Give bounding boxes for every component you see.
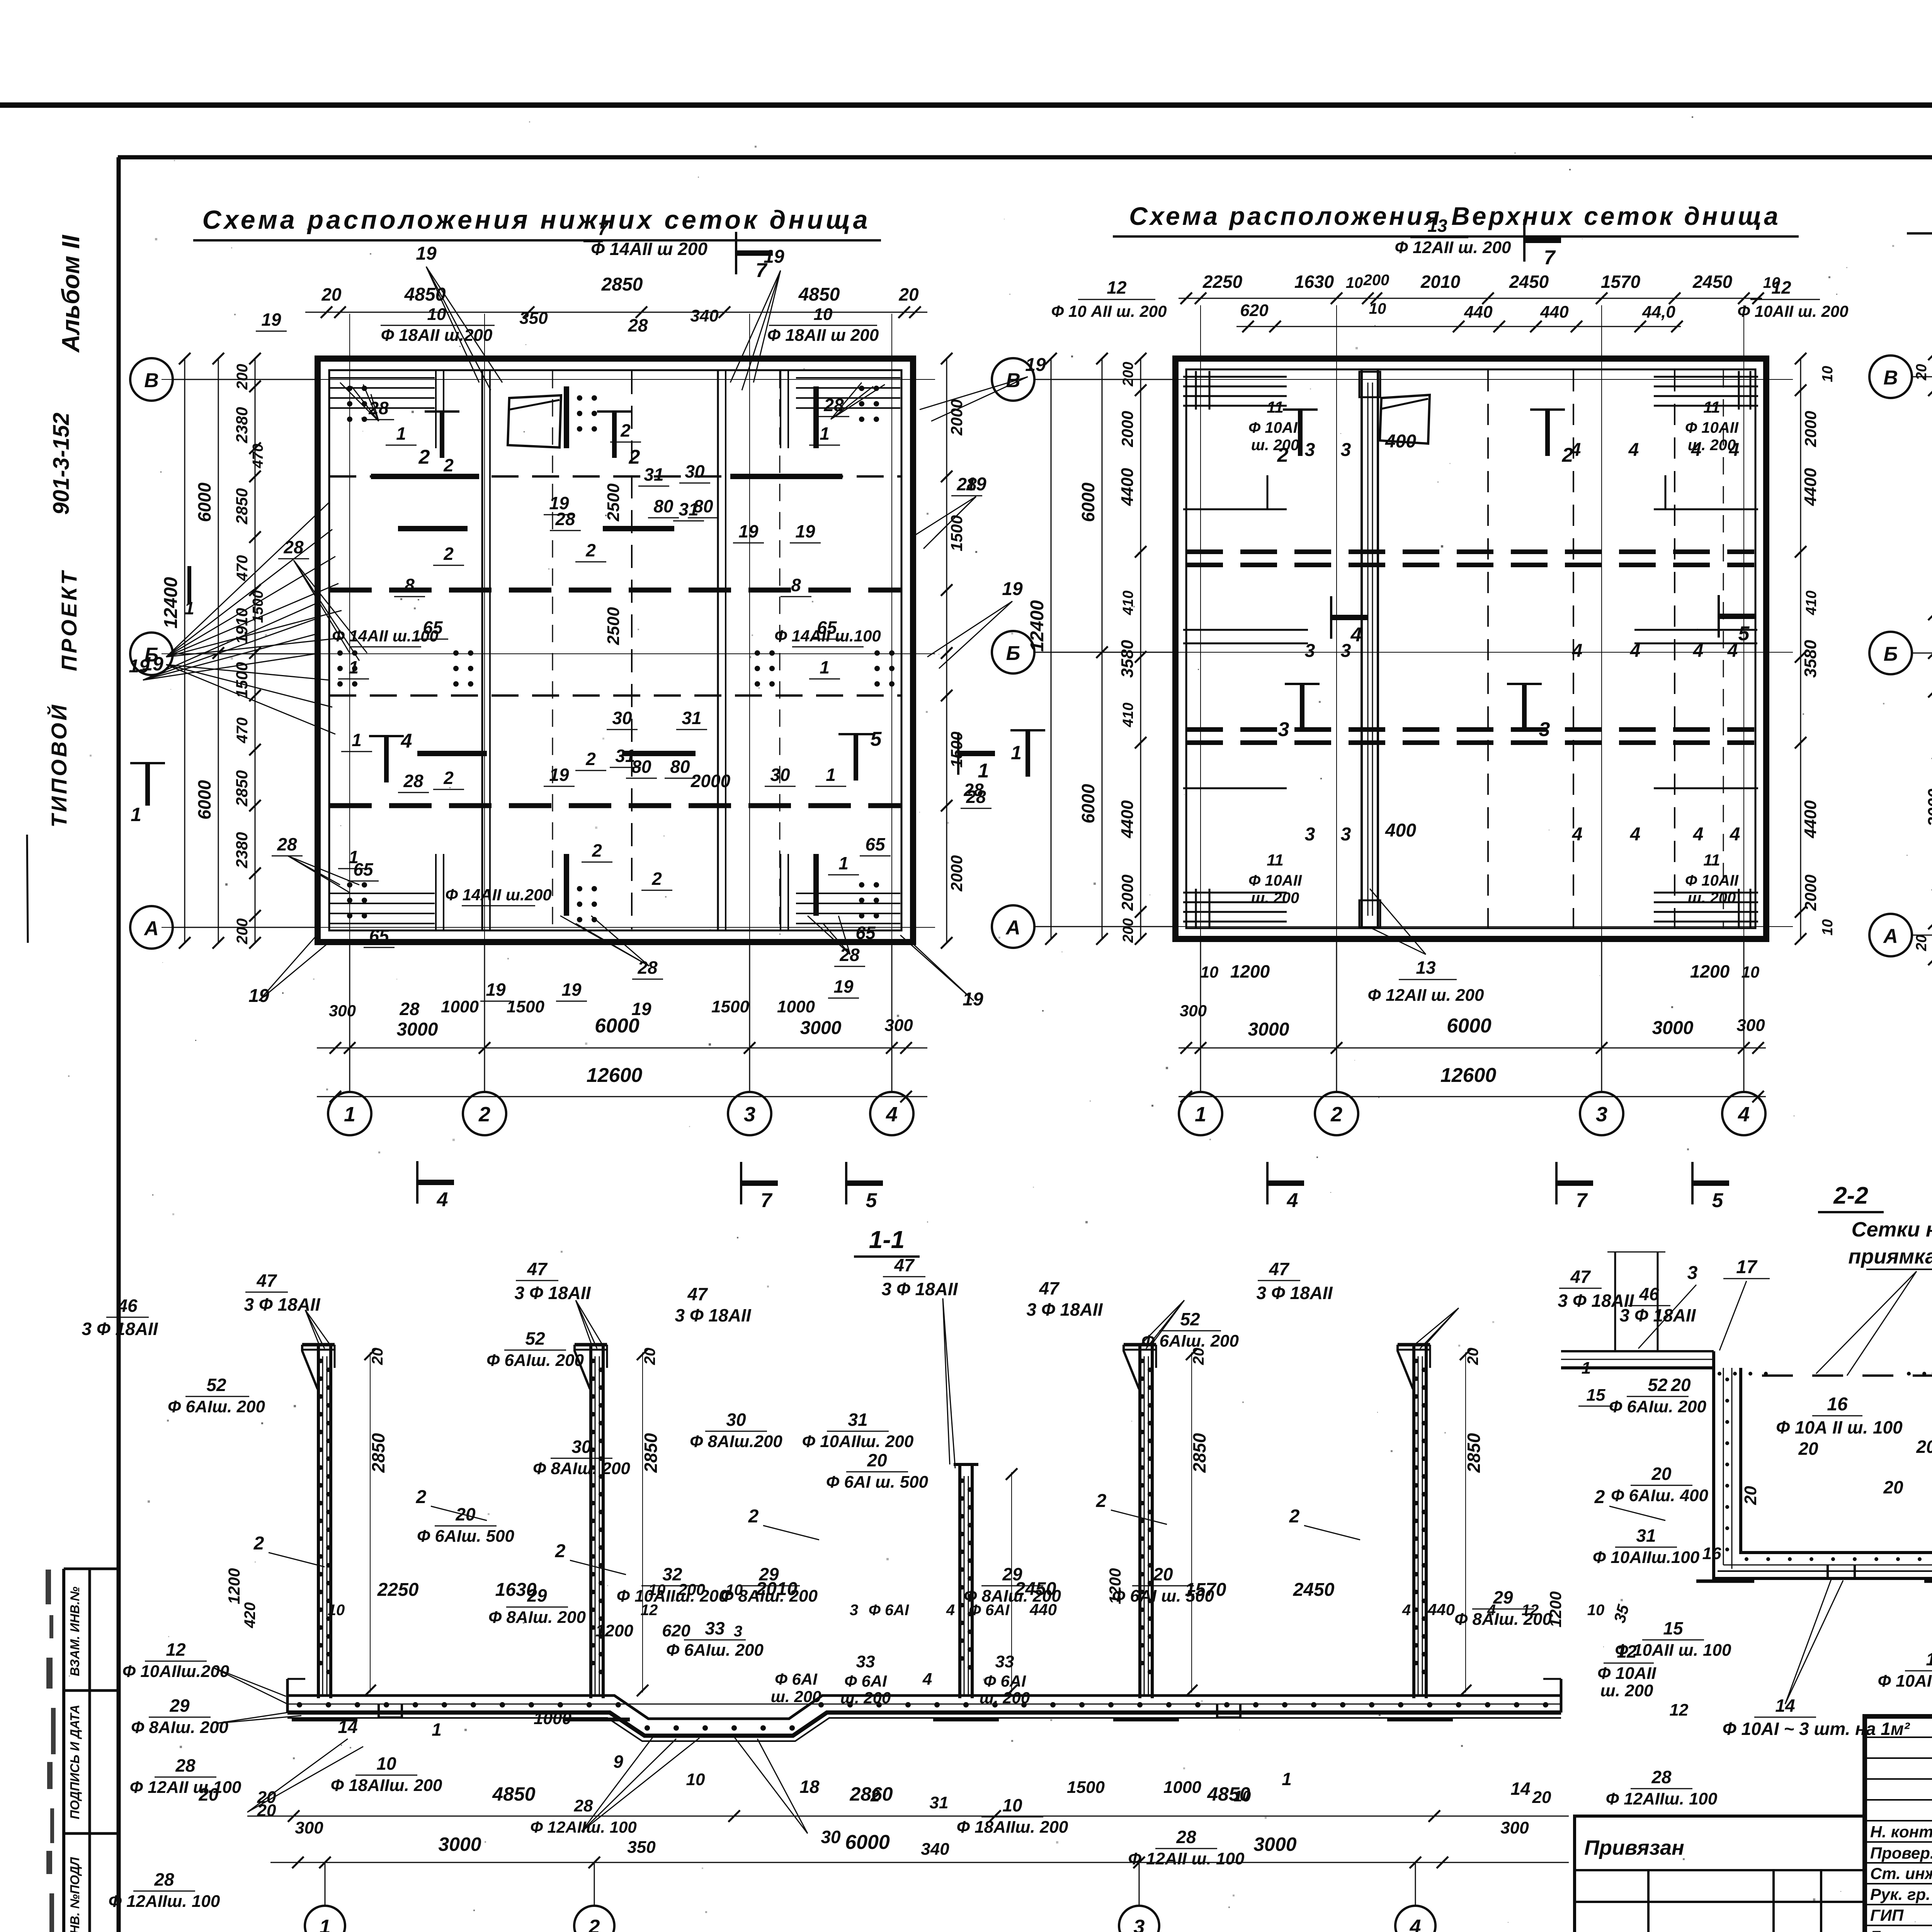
drawing frame [118, 155, 1932, 160]
svg-text:19: 19 [416, 243, 437, 264]
svg-text:9: 9 [613, 1752, 623, 1772]
svg-text:33: 33 [856, 1652, 875, 1671]
svg-text:1: 1 [978, 760, 989, 782]
plan 1 leader fans [426, 267, 479, 383]
plan 2 left dims [1140, 359, 1141, 939]
svg-text:3000: 3000 [1248, 1019, 1289, 1040]
svg-text:2380: 2380 [233, 407, 251, 443]
svg-text:65: 65 [855, 923, 876, 943]
svg-text:2250: 2250 [1202, 272, 1243, 292]
svg-text:2000: 2000 [1801, 411, 1820, 447]
svg-text:30: 30 [685, 461, 705, 481]
section 2-2 pit walls and bottom [1714, 1351, 1932, 1578]
svg-text:2000: 2000 [1801, 874, 1820, 911]
svg-text:1: 1 [838, 853, 849, 873]
svg-text:Ф 12АIIш. 100: Ф 12АIIш. 100 [1606, 1789, 1718, 1808]
svg-text:4: 4 [1487, 1602, 1496, 1619]
svg-text:10: 10 [328, 1602, 345, 1619]
svg-text:1570: 1570 [1185, 1580, 1226, 1600]
svg-text:80: 80 [670, 757, 690, 777]
svg-text:47: 47 [894, 1255, 915, 1275]
svg-text:3: 3 [734, 1623, 742, 1640]
svg-text:10: 10 [686, 1770, 705, 1789]
svg-text:2: 2 [443, 544, 454, 564]
svg-text:ГИП: ГИП [1870, 1906, 1904, 1924]
svg-text:300: 300 [1736, 1016, 1765, 1035]
svg-text:1: 1 [1195, 1103, 1206, 1126]
svg-text:10: 10 [376, 1753, 396, 1774]
svg-text:20: 20 [369, 1348, 386, 1366]
svg-text:47: 47 [1039, 1278, 1060, 1298]
svg-text:ш. 200: ш. 200 [1688, 437, 1736, 454]
svg-text:65: 65 [353, 859, 374, 879]
svg-text:19: 19 [795, 521, 815, 541]
svg-text:28: 28 [277, 834, 297, 854]
plan 1 dashed horizontals [329, 475, 901, 478]
svg-text:31: 31 [682, 708, 701, 728]
svg-text:ПОДПИСЬ И ДАТА: ПОДПИСЬ И ДАТА [68, 1705, 82, 1820]
svg-text:1: 1 [1582, 1359, 1591, 1378]
svg-text:10: 10 [1742, 963, 1760, 981]
plan 1 section T-marks [440, 412, 444, 458]
plan 1 left dimension column [255, 359, 256, 943]
svg-text:3: 3 [1305, 641, 1315, 661]
section 1-1 wall at axis 4 [1412, 1345, 1415, 1698]
svg-text:ш. 200: ш. 200 [1688, 889, 1736, 906]
svg-text:5: 5 [1712, 1189, 1724, 1212]
svg-text:28: 28 [963, 780, 984, 800]
svg-text:12600: 12600 [1440, 1064, 1497, 1087]
svg-text:20: 20 [1883, 1477, 1903, 1497]
svg-text:3000: 3000 [438, 1833, 481, 1855]
svg-text:5: 5 [866, 1189, 878, 1212]
svg-text:19: 19 [549, 765, 569, 785]
svg-text:20: 20 [1670, 1375, 1691, 1395]
svg-text:А: А [1005, 917, 1020, 939]
svg-text:3 Ф 18АII: 3 Ф 18АII [1026, 1299, 1103, 1320]
svg-text:20: 20 [1913, 935, 1930, 951]
svg-text:Ф 6АIш. 200: Ф 6АIш. 200 [1609, 1397, 1707, 1416]
svg-text:400: 400 [1385, 820, 1416, 841]
svg-text:Б: Б [1006, 642, 1020, 665]
svg-text:ш. 200: ш. 200 [1251, 437, 1299, 454]
svg-text:20: 20 [1913, 364, 1930, 381]
svg-text:28: 28 [399, 999, 420, 1019]
svg-text:4400: 4400 [1801, 468, 1820, 506]
svg-text:2010: 2010 [756, 1579, 798, 1599]
svg-text:ТИПОВОЙ: ТИПОВОЙ [47, 702, 71, 827]
svg-text:1: 1 [1011, 742, 1022, 764]
svg-text:6000: 6000 [194, 780, 214, 820]
svg-text:4: 4 [1693, 824, 1704, 845]
svg-text:10: 10 [427, 305, 446, 324]
svg-text:4: 4 [1628, 440, 1639, 460]
svg-text:Ф 6АIш. 500: Ф 6АIш. 500 [417, 1527, 515, 1546]
svg-text:31: 31 [1636, 1526, 1656, 1546]
svg-text:420: 420 [241, 1602, 259, 1629]
svg-text:2450: 2450 [1015, 1579, 1056, 1599]
svg-text:приямка вырезать: приямка вырезать [1848, 1245, 1932, 1268]
svg-text:350: 350 [627, 1838, 656, 1857]
plan 1 outer wall [318, 359, 913, 942]
svg-text:20: 20 [455, 1504, 476, 1524]
svg-text:17: 17 [1736, 1257, 1758, 1277]
svg-text:2: 2 [1330, 1103, 1342, 1126]
svg-text:Ф 10АIIш. 200: Ф 10АIIш. 200 [802, 1432, 914, 1451]
svg-text:Ф 10АIIш.200: Ф 10АIIш.200 [122, 1662, 230, 1681]
svg-text:1200: 1200 [595, 1621, 633, 1640]
svg-text:2850: 2850 [1189, 1433, 1209, 1473]
svg-text:1630: 1630 [1294, 272, 1334, 292]
svg-text:2: 2 [585, 749, 596, 769]
svg-text:4: 4 [1350, 624, 1362, 646]
svg-text:1: 1 [1282, 1769, 1292, 1789]
svg-text:ш. 200: ш. 200 [771, 1687, 821, 1706]
svg-text:3000: 3000 [397, 1019, 438, 1040]
svg-text:Ф 10АII ш. 100: Ф 10АII ш. 100 [1878, 1672, 1932, 1690]
svg-text:2: 2 [592, 840, 602, 861]
plan 2 mesh boundary short lines [1183, 509, 1287, 510]
svg-text:4: 4 [946, 1602, 955, 1619]
svg-text:10: 10 [1763, 274, 1781, 291]
svg-text:2250: 2250 [377, 1580, 419, 1600]
svg-text:1500: 1500 [947, 731, 966, 767]
svg-text:Ф 18АIIш. 200: Ф 18АIIш. 200 [331, 1776, 442, 1795]
svg-text:11: 11 [1703, 398, 1720, 416]
svg-text:2850: 2850 [233, 488, 251, 524]
svg-text:Ст. инж.: Ст. инж. [1870, 1864, 1932, 1883]
svg-text:1200: 1200 [1690, 961, 1730, 981]
svg-text:440: 440 [1427, 1600, 1455, 1619]
svg-text:2450: 2450 [1692, 272, 1733, 292]
svg-text:410: 410 [1120, 590, 1136, 615]
svg-text:1: 1 [131, 804, 141, 825]
svg-text:19: 19 [261, 310, 281, 330]
svg-text:31: 31 [644, 464, 663, 485]
svg-text:65: 65 [369, 926, 389, 946]
svg-text:4: 4 [437, 1189, 448, 1211]
svg-text:1: 1 [820, 423, 830, 444]
svg-text:Ф 12АII ш. 100: Ф 12АII ш. 100 [1128, 1849, 1245, 1868]
svg-text:Ф 6АIш. 200: Ф 6АIш. 200 [168, 1397, 265, 1416]
svg-text:1000: 1000 [441, 997, 479, 1016]
svg-text:Ф 6АI: Ф 6АI [844, 1672, 887, 1690]
section 1-1 wall at axis 2 [589, 1345, 592, 1698]
svg-text:2: 2 [1096, 1491, 1107, 1511]
svg-text:2000: 2000 [1118, 411, 1136, 447]
svg-text:3000: 3000 [1253, 1833, 1296, 1855]
svg-text:6000: 6000 [1078, 482, 1098, 522]
svg-text:10: 10 [1369, 300, 1386, 317]
svg-text:Ф 10АII: Ф 10АII [1248, 419, 1302, 436]
svg-text:Ф 6АI: Ф 6АI [969, 1602, 1010, 1619]
plan 1 interior wall lines [481, 370, 483, 930]
svg-text:2450: 2450 [1509, 272, 1549, 292]
svg-text:30: 30 [726, 1410, 746, 1430]
svg-text:16: 16 [1827, 1394, 1848, 1415]
svg-text:2-2: 2-2 [1833, 1182, 1868, 1209]
svg-text:3 Ф 18АII: 3 Ф 18АII [881, 1279, 958, 1299]
svg-text:1500: 1500 [1067, 1778, 1105, 1797]
svg-text:Рук. гр.: Рук. гр. [1870, 1885, 1930, 1903]
section 1-1 middle wall [958, 1464, 961, 1698]
svg-text:19: 19 [1002, 579, 1023, 599]
svg-text:3 Ф 18АII: 3 Ф 18АII [514, 1283, 591, 1303]
svg-text:28: 28 [628, 315, 648, 335]
svg-text:1: 1 [349, 657, 359, 677]
svg-text:20: 20 [1153, 1564, 1173, 1584]
svg-text:1500: 1500 [233, 662, 251, 698]
svg-text:620: 620 [662, 1621, 690, 1640]
svg-text:33: 33 [705, 1618, 725, 1638]
svg-text:470: 470 [234, 718, 251, 744]
svg-text:4: 4 [1727, 641, 1738, 661]
section 2-2 footer bars [1696, 1580, 1754, 1583]
section 1-1 top leader fans [305, 1310, 319, 1345]
svg-text:3: 3 [1596, 1103, 1607, 1126]
svg-text:28: 28 [154, 1869, 174, 1889]
svg-text:3 Ф 18АII: 3 Ф 18АII [244, 1294, 320, 1315]
svg-text:28: 28 [1176, 1827, 1196, 1847]
plan 1 corner mesh lines [329, 377, 435, 379]
svg-text:200: 200 [234, 364, 251, 390]
svg-text:1: 1 [396, 423, 406, 444]
svg-text:5: 5 [1738, 622, 1750, 645]
svg-text:10: 10 [1587, 1602, 1605, 1619]
svg-text:19: 19 [738, 521, 759, 541]
svg-text:1: 1 [432, 1719, 442, 1740]
title block outer [1865, 1716, 1932, 1932]
svg-text:2: 2 [416, 1487, 427, 1507]
svg-text:Ф 8АIш. 200: Ф 8АIш. 200 [131, 1718, 229, 1737]
section 2-2 column stub [1614, 1252, 1616, 1350]
svg-text:4: 4 [1402, 1602, 1411, 1619]
svg-text:18: 18 [799, 1777, 820, 1797]
svg-text:Ф 10АIIш. 200: Ф 10АIIш. 200 [617, 1587, 728, 1605]
svg-text:7: 7 [756, 259, 768, 282]
scan specks [959, 410, 961, 412]
svg-text:29: 29 [1493, 1587, 1513, 1607]
svg-text:4850: 4850 [798, 284, 840, 305]
svg-text:52: 52 [1180, 1309, 1200, 1329]
svg-text:Гл. спец.: Гл. спец. [1870, 1927, 1932, 1932]
svg-text:Ф 10АII ш. 200: Ф 10АII ш. 200 [1737, 302, 1848, 320]
svg-text:3: 3 [1687, 1263, 1698, 1283]
svg-text:ш. 200: ш. 200 [1251, 889, 1299, 906]
svg-text:2: 2 [620, 420, 631, 440]
svg-text:5: 5 [871, 728, 882, 750]
svg-text:20: 20 [1532, 1788, 1551, 1807]
svg-text:2: 2 [1594, 1487, 1605, 1507]
svg-text:Альбом II: Альбом II [57, 235, 85, 353]
svg-text:3 Ф 18АII: 3 Ф 18АII [675, 1305, 751, 1325]
svg-text:29: 29 [169, 1696, 190, 1716]
svg-text:1200: 1200 [1106, 1568, 1124, 1604]
svg-text:12: 12 [641, 1602, 658, 1619]
svg-text:30: 30 [770, 765, 790, 785]
svg-text:2850: 2850 [233, 770, 251, 806]
svg-text:4: 4 [1630, 824, 1641, 845]
svg-text:19: 19 [966, 474, 986, 495]
plan 1 mesh bars [398, 526, 468, 531]
svg-text:11: 11 [1703, 851, 1720, 869]
svg-text:4: 4 [1630, 641, 1641, 661]
svg-text:2: 2 [443, 455, 454, 475]
svg-text:ИНВ. №ПОДЛ: ИНВ. №ПОДЛ [68, 1857, 82, 1932]
plan 2 corner mesh lines [1183, 376, 1287, 378]
svg-text:4: 4 [1572, 641, 1583, 661]
svg-text:200: 200 [1120, 918, 1136, 943]
svg-text:2850: 2850 [641, 1433, 661, 1473]
svg-text:410: 410 [1803, 590, 1820, 615]
svg-text:4850: 4850 [404, 284, 446, 305]
section 1-1 slab rebar dots [297, 1702, 302, 1708]
svg-text:19: 19 [129, 656, 150, 677]
stray vertical mark left margin [27, 835, 28, 943]
svg-text:6000: 6000 [1078, 784, 1098, 823]
svg-text:Ф 10АI ~ 3 шт. на 1м²: Ф 10АI ~ 3 шт. на 1м² [1723, 1719, 1910, 1739]
svg-text:1200: 1200 [1230, 961, 1270, 981]
svg-text:2000: 2000 [690, 771, 731, 791]
svg-text:Ф 12АII ш.100: Ф 12АII ш.100 [130, 1778, 241, 1797]
svg-text:Н. контр.: Н. контр. [1870, 1823, 1932, 1841]
svg-text:30: 30 [571, 1437, 592, 1457]
svg-text:4: 4 [1570, 440, 1581, 460]
svg-text:52: 52 [525, 1328, 545, 1349]
svg-text:1500: 1500 [947, 515, 966, 551]
svg-text:Привязан: Привязан [1584, 1836, 1684, 1859]
svg-text:Ф 12АIIш. 100: Ф 12АIIш. 100 [109, 1892, 220, 1911]
svg-text:200: 200 [678, 1580, 705, 1599]
svg-text:1500: 1500 [711, 997, 749, 1016]
svg-text:1500: 1500 [250, 590, 266, 623]
plan 3 axis circles [1869, 355, 1912, 398]
plan 2 dashed verticals [1487, 370, 1489, 927]
svg-text:300: 300 [1500, 1818, 1529, 1837]
svg-text:Ф 14АII ш.100: Ф 14АII ш.100 [774, 627, 881, 645]
svg-text:52: 52 [206, 1375, 226, 1395]
svg-text:12400: 12400 [161, 577, 181, 629]
svg-text:10: 10 [1346, 274, 1363, 291]
svg-text:Ф 10АII: Ф 10АII [1685, 419, 1739, 436]
svg-text:10: 10 [648, 1582, 666, 1599]
plan 1 tilted plate [508, 395, 561, 447]
svg-text:16: 16 [1702, 1544, 1721, 1563]
svg-text:19: 19 [549, 493, 569, 513]
section 2-2 top slab left [1561, 1350, 1714, 1352]
svg-text:Ф 12АII ш. 200: Ф 12АII ш. 200 [1395, 238, 1511, 257]
svg-text:10: 10 [726, 1582, 743, 1599]
svg-text:65: 65 [865, 834, 886, 854]
plan 2 tilted plate [1380, 395, 1430, 444]
svg-text:300: 300 [1180, 1002, 1207, 1020]
svg-text:20: 20 [1741, 1486, 1760, 1505]
svg-text:2: 2 [443, 768, 454, 788]
svg-text:3: 3 [1278, 718, 1289, 741]
svg-text:ш. 200: ш. 200 [1600, 1681, 1654, 1700]
svg-text:7: 7 [1576, 1189, 1588, 1212]
svg-text:Ф 8АIш. 200: Ф 8АIш. 200 [488, 1608, 586, 1627]
section 1-1 misc leaders [247, 1739, 348, 1812]
svg-text:Ф 18АII ш 200: Ф 18АII ш 200 [767, 326, 879, 345]
svg-text:1000: 1000 [1163, 1778, 1201, 1797]
svg-text:12: 12 [1107, 277, 1127, 298]
section 1-1 bottom slab [287, 1696, 1561, 1719]
svg-text:Ф 10АII: Ф 10АII [1248, 872, 1302, 889]
svg-text:28: 28 [403, 771, 423, 791]
svg-text:ш. 200: ш. 200 [980, 1689, 1030, 1707]
svg-text:4850: 4850 [492, 1783, 535, 1805]
svg-text:3 Ф 18АII: 3 Ф 18АII [1256, 1283, 1333, 1303]
svg-text:901-3-152: 901-3-152 [49, 413, 74, 515]
svg-text:3: 3 [744, 1103, 755, 1126]
svg-text:20: 20 [1464, 1348, 1481, 1366]
svg-text:4: 4 [1693, 641, 1704, 661]
svg-text:2850: 2850 [1464, 1433, 1484, 1473]
svg-text:7: 7 [761, 1189, 773, 1212]
plan 2 mid edge mesh lines [1183, 629, 1308, 631]
svg-text:400: 400 [1385, 431, 1416, 452]
svg-text:470: 470 [250, 444, 266, 468]
svg-text:В: В [1883, 367, 1898, 389]
svg-text:Ф 18АII ш.200: Ф 18АII ш.200 [381, 326, 493, 345]
svg-text:4: 4 [886, 1103, 898, 1126]
svg-text:2: 2 [629, 446, 640, 468]
svg-text:2010: 2010 [1420, 272, 1461, 292]
svg-text:200: 200 [1120, 362, 1136, 386]
section 2-2 cut mesh dashes [1762, 1374, 1793, 1377]
svg-text:410: 410 [1120, 702, 1136, 727]
svg-text:2000: 2000 [947, 399, 966, 435]
svg-text:ВЗАМ. ИНВ.№: ВЗАМ. ИНВ.№ [68, 1587, 82, 1676]
svg-text:4: 4 [401, 730, 412, 752]
svg-text:10: 10 [814, 305, 833, 324]
svg-text:8: 8 [405, 575, 415, 595]
svg-text:17: 17 [1926, 1649, 1932, 1669]
section 1-1 slab end hooks [286, 1679, 289, 1713]
svg-text:Ф 10АIIш.100: Ф 10АIIш.100 [1593, 1548, 1700, 1567]
plan 1 dashed axis verticals [552, 371, 553, 929]
svg-text:13: 13 [1427, 216, 1447, 236]
svg-text:2: 2 [253, 1533, 264, 1554]
svg-text:2: 2 [418, 446, 430, 468]
svg-text:440: 440 [1540, 303, 1569, 321]
svg-text:4: 4 [1410, 1916, 1421, 1932]
plan 1 rebar dot clusters [347, 386, 352, 391]
svg-text:80: 80 [653, 496, 673, 516]
svg-text:28: 28 [1651, 1767, 1672, 1787]
svg-text:4850: 4850 [1207, 1783, 1250, 1805]
svg-text:Провер.: Провер. [1870, 1844, 1932, 1862]
title block personnel grid [1865, 1736, 1932, 1738]
svg-text:19: 19 [486, 980, 506, 1000]
svg-text:200: 200 [1363, 272, 1389, 289]
plan 2 outer wall [1175, 359, 1766, 939]
svg-text:Ф 6АI: Ф 6АI [775, 1670, 818, 1688]
plan 1 below section marks [416, 1161, 418, 1204]
svg-text:47: 47 [527, 1259, 548, 1279]
svg-text:44,0: 44,0 [1642, 303, 1675, 321]
svg-text:2850: 2850 [601, 274, 643, 295]
svg-text:7: 7 [1544, 247, 1556, 269]
svg-text:1: 1 [352, 730, 362, 750]
svg-text:350: 350 [519, 309, 548, 328]
left sidebar boxes [62, 1569, 65, 1932]
top rule line [0, 102, 1932, 108]
svg-text:28: 28 [368, 398, 389, 418]
svg-text:440: 440 [1464, 303, 1493, 321]
svg-text:30: 30 [612, 708, 632, 728]
